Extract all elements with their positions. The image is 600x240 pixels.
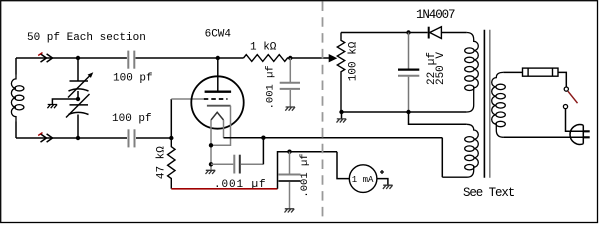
inductor T1 primary winding	[492, 72, 506, 137]
wire cathode drop gray	[211, 106, 231, 146]
wire meter riser	[278, 152, 338, 189]
node transformer core lines	[483, 30, 485, 178]
capacitor variable C top section	[69, 81, 89, 91]
node variable capacitor arrow bottom section	[66, 94, 90, 118]
wire variable capacitor top lead	[77, 58, 79, 81]
node plus sign	[380, 170, 384, 174]
wire heater right leg	[223, 120, 225, 138]
wire meter drop	[337, 152, 349, 179]
node junction dot after 1k	[288, 56, 292, 60]
wire heater rail to transformer	[224, 137, 443, 139]
wire to pot wiper	[290, 57, 330, 59]
node AC plug prongs	[583, 131, 589, 137]
ground meter ground	[383, 185, 393, 189]
svg-text:See Text: See Text	[463, 186, 515, 200]
node junction dot bottom of variable capacitor	[76, 136, 80, 140]
inductor T1 secondary HV winding	[465, 33, 479, 113]
wire B+ top rail	[341, 32, 428, 34]
wire filament winding bottom return	[441, 138, 443, 178]
wire bottom wire cap to grid riser	[136, 137, 171, 139]
meter M1 1 mA	[349, 165, 377, 193]
wire B- rail	[342, 111, 467, 113]
resistor R2 1 kOhm	[244, 55, 292, 62]
wire switch to plug	[566, 109, 584, 132]
capacitor C5 meter bypass .001 uf	[289, 152, 291, 174]
svg-text:250 V: 250 V	[435, 52, 447, 85]
ground cathode ground symbol	[206, 170, 216, 174]
svg-text:50 pf Each section: 50 pf Each section	[27, 32, 146, 44]
switch S1	[564, 87, 568, 91]
wire variable capacitor middle link	[77, 91, 79, 99]
fuse F1	[523, 68, 559, 76]
wire grid lead gray	[171, 98, 204, 100]
wire fuse to switch	[558, 72, 566, 87]
wire filament winding top lead	[409, 112, 467, 124]
node junction dot top of variable capacitor	[76, 56, 80, 60]
wire red cathode metering wire	[171, 188, 277, 190]
node arrow chevrons on top wire	[41, 54, 53, 62]
svg-text:1 mA: 1 mA	[352, 175, 374, 185]
node junction dot cathode	[209, 143, 213, 147]
wire tank left vertical top	[15, 58, 17, 75]
capacitor C2 100 pf bottom	[129, 129, 135, 147]
wire diode to transformer	[441, 32, 466, 34]
node junction dot variable capacitor middle	[76, 97, 80, 101]
svg-text:47 kΩ: 47 kΩ	[156, 146, 168, 179]
svg-text:.001 µf: .001 µf	[265, 65, 277, 109]
ground tank ground symbol	[47, 105, 57, 109]
node tube grid dashed	[204, 98, 228, 100]
node variable capacitor arrow top section	[68, 75, 91, 98]
wire grid riser	[170, 99, 172, 138]
node AC plug body	[570, 125, 583, 145]
svg-text:100 kΩ: 100 kΩ	[348, 41, 360, 81]
wire bypass riser to heater rail	[262, 138, 264, 165]
capacitor variable C bottom section	[69, 105, 89, 115]
node tube plate bar	[205, 90, 232, 92]
resistor R3 100 kOhm potentiometer	[337, 33, 344, 113]
ground pot ground	[341, 112, 343, 119]
wire tank left vertical bottom	[15, 122, 17, 139]
wire meter right lead	[377, 179, 388, 186]
node junction dot B-	[406, 110, 410, 114]
svg-text:100 pf: 100 pf	[113, 73, 153, 85]
wire variable capacitor bottom lead	[77, 115, 79, 139]
wire to tank ground	[52, 99, 78, 105]
ground plate bypass ground	[285, 107, 295, 111]
wire primary bottom rail to plug	[503, 136, 583, 138]
ground meter cap ground	[285, 209, 295, 213]
resistor R1 47 kOhm	[168, 138, 175, 189]
node junction dot B+	[406, 30, 410, 34]
wire top tank wire	[16, 57, 127, 59]
node tube cathode bar	[207, 105, 231, 107]
node junction dot pot bottom	[339, 110, 343, 114]
diode D1 1N4007	[428, 27, 430, 39]
capacitor C6 .001 uf plate bypass	[289, 58, 291, 83]
op-amp U1 tube 6CW4 envelope	[191, 76, 243, 128]
node pot wiper arrowhead	[329, 54, 338, 62]
wire top wire caps to tube	[136, 57, 244, 59]
inductor T1 filament winding	[442, 124, 478, 177]
svg-text:100 pf: 100 pf	[112, 113, 152, 125]
capacitor C3 22 uf 250 V	[408, 33, 410, 70]
capacitor C4 cathode bypass .001 uf	[211, 163, 233, 165]
inductor L1 tank coil	[11, 75, 24, 122]
svg-text:1 kΩ: 1 kΩ	[250, 42, 277, 54]
node junction dot cathode cap tap	[209, 162, 213, 166]
svg-text:.001 µf: .001 µf	[299, 153, 311, 197]
node junction dot plate	[216, 56, 220, 60]
svg-text:1N4007: 1N4007	[416, 8, 455, 22]
node junction dot meter cap	[287, 150, 291, 154]
node junction dot grid riser	[169, 136, 173, 140]
node junction dot heater rail	[261, 136, 265, 140]
node tube heater chevron	[211, 112, 224, 120]
capacitor C1 100 pf top	[128, 51, 134, 69]
wire bottom tank wire	[16, 137, 127, 139]
wire plate lead	[217, 58, 219, 92]
wire primary top to fuse	[503, 71, 522, 73]
wire heater left leg down to ground	[210, 120, 212, 170]
node arrow chevrons on bottom wire	[41, 134, 53, 142]
svg-text:6CW4: 6CW4	[205, 29, 232, 41]
wire dashed chassis separator	[322, 2, 324, 223]
